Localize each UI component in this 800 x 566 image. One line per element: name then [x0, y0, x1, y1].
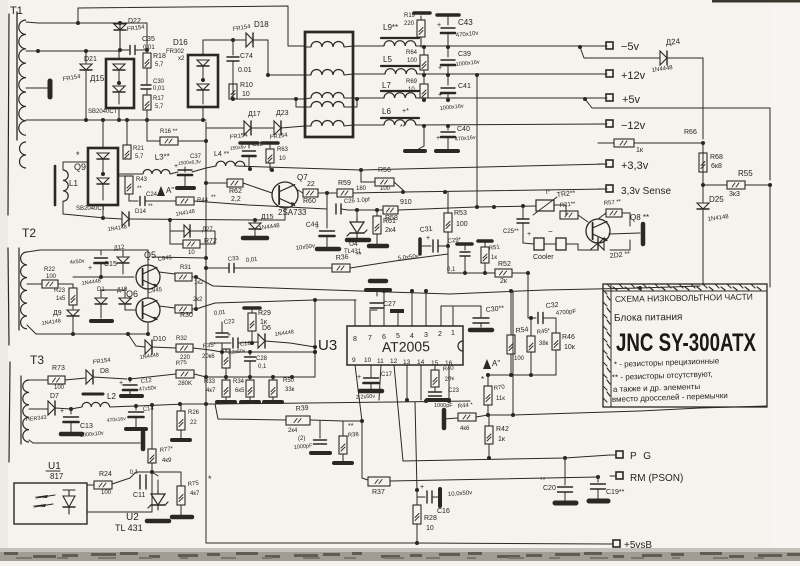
label 0,1: [447, 267, 456, 273]
svg-text:R63: R63: [277, 147, 289, 153]
inductor L5: [381, 55, 419, 74]
terminal +5v: [598, 94, 613, 101]
label C33: [228, 256, 259, 264]
svg-text:R17: R17: [153, 96, 165, 102]
svg-text:JNC SY-300ATX: JNC SY-300ATX: [616, 329, 756, 357]
label R29: [258, 310, 271, 326]
label R53: [454, 210, 468, 228]
svg-text:C13: C13: [80, 423, 93, 430]
label C28: [256, 356, 268, 370]
resistor R50: [269, 377, 277, 400]
label C13: [80, 423, 105, 439]
label C19: [606, 489, 625, 496]
node: [313, 345, 317, 354]
wire: [238, 342, 258, 343]
ground: [436, 150, 458, 151]
svg-text:T3: T3: [30, 353, 44, 367]
resistor R28: [413, 497, 421, 543]
svg-text:22: 22: [307, 181, 315, 188]
svg-text:D16: D16: [173, 38, 188, 47]
wire: [147, 289, 149, 298]
node: [248, 167, 363, 172]
wire: [206, 127, 244, 129]
label C23: [434, 388, 460, 409]
resistor R21: [123, 120, 131, 159]
diode D27: [184, 225, 190, 237]
svg-text:180: 180: [356, 186, 367, 192]
resistor R45: [527, 318, 535, 375]
resistor R55: [703, 181, 770, 189]
label RM: [630, 473, 683, 484]
wire feedback B: [196, 300, 356, 309]
label R52: [498, 261, 511, 285]
terminal 3,3v Sense: [598, 185, 613, 192]
svg-text:10: 10: [279, 156, 286, 162]
node: [204, 398, 451, 406]
shunt regulator U2: [148, 472, 168, 510]
capacitor C74: [227, 40, 239, 99]
svg-text:R16 **: R16 **: [160, 129, 178, 135]
svg-text:+12v: +12v: [621, 70, 646, 82]
label R72: [188, 238, 217, 256]
wire +5vSB rail: [206, 543, 610, 544]
node: [701, 183, 772, 187]
resistor R44: [176, 197, 327, 209]
svg-text:TL 431: TL 431: [115, 523, 143, 533]
pin 12: [390, 358, 403, 461]
svg-text:2к2: 2к2: [193, 297, 203, 303]
label C17: [356, 372, 393, 401]
label R10: [240, 82, 253, 98]
svg-text:2: 2: [438, 331, 442, 338]
svg-text:C16: C16: [437, 508, 450, 515]
resistor R22: [27, 280, 73, 288]
rectifier Q9 block: [88, 120, 118, 205]
svg-text:R32: R32: [176, 336, 188, 342]
svg-text:R28: R28: [424, 515, 437, 522]
svg-text:0,1: 0,1: [130, 469, 140, 476]
diode D12: [117, 250, 129, 274]
capacitor C32: [528, 313, 556, 334]
label R26: [188, 410, 200, 426]
svg-text:A": A": [166, 186, 174, 195]
pin 14: [417, 359, 425, 400]
svg-text:22: 22: [190, 420, 197, 426]
ground: [414, 11, 430, 15]
label C74: [238, 53, 253, 74]
label U4: [344, 241, 362, 255]
fan connector Cooler: [523, 238, 590, 250]
node: [422, 97, 587, 102]
diode D15m: [249, 220, 261, 236]
inductor L6: [381, 107, 419, 125]
label -12v: [621, 120, 646, 132]
wire T2 bottom rail: [27, 325, 128, 334]
label R32: [176, 336, 191, 361]
resistor R77: [148, 449, 156, 512]
svg-text:+5vѕB: +5vѕB: [624, 540, 652, 551]
transformer winding w4: [305, 102, 353, 108]
label FR154: [229, 132, 248, 141]
current sense mark A2: [157, 186, 174, 196]
svg-text:0,01: 0,01: [143, 45, 155, 51]
wire: [170, 220, 184, 231]
wire 2k rung: [448, 272, 495, 274]
svg-text:5,7: 5,7: [155, 62, 164, 68]
svg-text:+: +: [426, 235, 430, 242]
svg-text:R69: R69: [406, 79, 418, 85]
wire: [487, 374, 556, 376]
label D23: [269, 110, 288, 141]
ground: [555, 501, 576, 506]
svg-text:RM (PSON): RM (PSON): [630, 473, 683, 484]
svg-text:C25**: C25**: [503, 229, 519, 235]
svg-text:R31: R31: [180, 265, 192, 271]
svg-text:L6: L6: [382, 107, 391, 116]
svg-text:Q5: Q5: [144, 250, 156, 260]
svg-text:R59: R59: [338, 180, 351, 187]
label T2: [22, 226, 36, 240]
label R71: [560, 201, 577, 209]
svg-text:+: +: [227, 332, 231, 339]
label D14: [107, 209, 146, 233]
inductor L7: [381, 81, 419, 98]
svg-text:+: +: [88, 265, 92, 272]
label D24: [651, 37, 681, 74]
svg-text:L7: L7: [382, 81, 391, 90]
svg-text:D14: D14: [135, 209, 147, 215]
top right scan line: [712, 0, 800, 3]
diode D22: [114, 23, 126, 50]
ground: [141, 432, 146, 449]
label L1: [69, 179, 78, 188]
resistor R56: [361, 178, 403, 190]
svg-text:2,2: 2,2: [231, 196, 241, 203]
label Q8: [630, 213, 649, 222]
diode D21: [80, 51, 92, 120]
label R36: [335, 252, 361, 262]
label C18: [228, 341, 252, 356]
terminal PG: [610, 451, 623, 458]
label T1: [10, 5, 23, 17]
label R33: [204, 379, 216, 394]
svg-text:R66: R66: [684, 129, 697, 136]
node: [194, 307, 198, 311]
wire: [609, 233, 640, 234]
resistor R52: [495, 269, 528, 277]
label R58: [385, 199, 412, 222]
transformer T3 core: [20, 376, 22, 444]
svg-text:*: *: [208, 474, 212, 484]
svg-text:L2: L2: [107, 392, 116, 401]
node: [204, 139, 208, 379]
inductor L1 core: [54, 166, 57, 205]
svg-text:R34: R34: [233, 379, 245, 385]
capacitor C14: [129, 406, 144, 427]
node: [701, 141, 705, 145]
IC notch: [458, 341, 463, 351]
label R73: [52, 365, 65, 391]
label C26: [344, 197, 371, 205]
ground: [126, 427, 146, 431]
svg-text:3,3v Sense: 3,3v Sense: [621, 186, 671, 197]
wire emitter row: [296, 189, 303, 193]
svg-text:C28: C28: [256, 356, 268, 362]
svg-text:+: +: [60, 408, 64, 415]
resistor R31: [159, 272, 196, 281]
svg-text:5,7: 5,7: [135, 154, 144, 160]
svg-text:6к5: 6к5: [235, 388, 245, 394]
wire: [477, 206, 536, 207]
svg-text:10: 10: [426, 525, 434, 532]
svg-text:0,01: 0,01: [246, 257, 259, 264]
resistor R71: [560, 211, 588, 222]
terminal -12v: [598, 120, 613, 127]
title note1: [614, 356, 720, 369]
node: [422, 124, 450, 128]
resistor R38: [339, 421, 347, 461]
label D6: [262, 325, 294, 338]
label 3,3v Sense: [621, 186, 671, 197]
capacitor C39: [438, 47, 455, 75]
label R66: [636, 129, 697, 154]
terminal RM: [610, 472, 623, 479]
wire: [118, 175, 129, 177]
svg-text:L1: L1: [69, 179, 78, 188]
svg-text:AT2005: AT2005: [382, 338, 430, 355]
svg-text:*: *: [481, 375, 484, 384]
capacitor C35: [120, 46, 147, 55]
svg-text:FR302: FR302: [166, 49, 185, 55]
node: [231, 38, 235, 42]
svg-text:100: 100: [101, 490, 112, 496]
svg-text:**: **: [137, 186, 142, 192]
svg-text:R39: R39: [295, 405, 309, 413]
transformer T1 winding: [19, 20, 26, 135]
inductor L4: [192, 161, 245, 172]
svg-text:4: 4: [410, 333, 414, 340]
svg-text:L4 **: L4 **: [214, 151, 229, 158]
svg-text:D21: D21: [84, 56, 97, 63]
resistor R63: [262, 143, 278, 170]
rectifier D15 block: [106, 51, 134, 120]
svg-text:6: 6: [382, 334, 386, 341]
wire: [147, 266, 149, 289]
left boundary: [8, 14, 9, 215]
wire: [190, 231, 215, 244]
label R39: [288, 405, 309, 442]
resistor R62: [206, 179, 272, 193]
wire: [416, 45, 607, 47]
svg-text:R62: R62: [229, 188, 242, 195]
title text JNC: [616, 329, 756, 357]
transformer winding w1: [305, 42, 353, 47]
terminal +12v: [598, 70, 613, 77]
svg-text:**: **: [148, 204, 153, 210]
resistor R51: [478, 241, 492, 273]
label L4: [214, 151, 229, 158]
pin 9: [352, 357, 362, 478]
wire: [29, 408, 48, 410]
capacitor C22: [216, 322, 228, 352]
svg-text:10: 10: [242, 91, 250, 98]
capacitor C23: [427, 392, 449, 400]
label C29: [447, 237, 462, 245]
svg-text:**: **: [348, 423, 354, 430]
svg-text:3к3: 3к3: [729, 191, 740, 198]
svg-text:C40: C40: [457, 126, 470, 133]
thermistor TR2: [533, 190, 557, 215]
ground: [641, 224, 646, 244]
label D21: [62, 56, 97, 83]
wire: [205, 404, 207, 543]
diode D25: [697, 185, 709, 285]
label C44: [295, 221, 319, 252]
svg-text:Д15: Д15: [90, 74, 105, 83]
wire: [26, 50, 119, 52]
label R46: [562, 334, 576, 351]
capacitor C28: [245, 352, 256, 377]
svg-text:R22: R22: [44, 267, 56, 273]
pin 10: [364, 357, 372, 374]
ground: [317, 247, 339, 252]
svg-text:0,01: 0,01: [214, 310, 227, 317]
wire: [268, 74, 305, 76]
pin 8: [353, 300, 357, 343]
svg-text:4к9: 4к9: [162, 458, 172, 464]
node: [443, 190, 447, 194]
wire +5v feed: [585, 99, 770, 180]
svg-text:C74: C74: [240, 53, 253, 60]
wire: [62, 201, 64, 214]
label D15m: [258, 214, 280, 232]
resistor R23: [69, 284, 77, 305]
wire: [476, 75, 478, 207]
label R59: [338, 180, 367, 192]
inductor L3: [118, 170, 178, 175]
label Q5: [144, 250, 173, 263]
capacitor C26: [336, 204, 348, 214]
label R75a: [176, 360, 192, 387]
wire: [554, 205, 566, 215]
svg-text:10: 10: [364, 357, 372, 364]
label R18: [153, 53, 166, 68]
label C30: [485, 305, 504, 314]
svg-text:11к: 11к: [496, 396, 505, 402]
ground: [91, 319, 112, 323]
wire divider rail: [206, 376, 295, 378]
wire: [29, 379, 48, 381]
label R30: [180, 297, 203, 319]
node: [492, 204, 525, 209]
pin 15: [431, 360, 439, 370]
svg-text:C11: C11: [133, 492, 145, 499]
node: [101, 216, 172, 222]
capacitor C16: [417, 484, 440, 506]
svg-text:R44: R44: [197, 198, 209, 204]
wire: [26, 22, 147, 23]
svg-text:SB2040CT: SB2040CT: [76, 206, 106, 212]
label C12: [139, 378, 158, 393]
label C27: [383, 301, 396, 308]
wire 3,3v sense rail: [403, 189, 607, 192]
node: [422, 45, 582, 49]
label +5vSB: [624, 540, 652, 551]
svg-text:R10: R10: [240, 82, 253, 89]
svg-text:R64: R64: [406, 50, 418, 56]
wire: [152, 257, 206, 258]
svg-text:100: 100: [456, 221, 468, 228]
wire -12v row: [353, 124, 384, 126]
node: [253, 218, 257, 222]
label C30: [153, 79, 165, 92]
label C38: [230, 142, 264, 152]
svg-text:100: 100: [46, 274, 57, 280]
svg-text:100: 100: [380, 186, 391, 192]
svg-text:C35: C35: [142, 36, 155, 43]
optocoupler U1 box: [14, 483, 87, 524]
capacitor C17: [357, 374, 379, 390]
label D25: [707, 195, 729, 223]
U1 led arrows: [32, 495, 55, 507]
wire C18 row: [210, 342, 231, 344]
capacitor C1000: [311, 421, 330, 453]
svg-text:2к: 2к: [500, 278, 508, 285]
label R28: [424, 515, 437, 532]
label D13: [116, 286, 128, 294]
resistor R75b: [152, 472, 185, 515]
node: [596, 475, 600, 479]
label D27: [202, 227, 213, 233]
svg-text:**: **: [211, 195, 216, 201]
svg-text:R37: R37: [372, 489, 385, 496]
ground: [369, 244, 387, 249]
ground: [121, 394, 142, 398]
resistor R69: [420, 75, 428, 100]
node: [475, 205, 479, 209]
ground: [48, 81, 53, 97]
svg-text:R24: R24: [99, 471, 112, 478]
resistor R70: [484, 375, 492, 415]
label Q9: [74, 150, 106, 212]
resistor R60: [303, 189, 337, 197]
label R50: [283, 378, 295, 393]
svg-text:D18: D18: [254, 20, 269, 29]
ground: [241, 400, 259, 404]
label: [175, 209, 195, 218]
svg-text:C23: C23: [448, 388, 460, 394]
node: [360, 419, 364, 423]
diode D16a: [197, 60, 209, 78]
resistor R29: [244, 308, 260, 343]
wire: [101, 290, 136, 310]
capacitor C27: [366, 290, 390, 310]
label C16: [437, 490, 472, 515]
wire: [87, 484, 94, 486]
svg-text:U2: U2: [126, 512, 139, 523]
svg-text:D6: D6: [262, 325, 271, 332]
resistor R10: [229, 84, 237, 99]
wire: [185, 401, 470, 404]
inductor L9: [381, 23, 419, 46]
capacitor C43: [437, 15, 455, 47]
label +3,3v: [621, 160, 649, 172]
svg-text:8: 8: [353, 336, 357, 343]
svg-text:0,1: 0,1: [258, 364, 267, 370]
svg-text:Д23: Д23: [276, 110, 289, 117]
label R77: [159, 446, 174, 464]
label +12v: [621, 70, 646, 82]
